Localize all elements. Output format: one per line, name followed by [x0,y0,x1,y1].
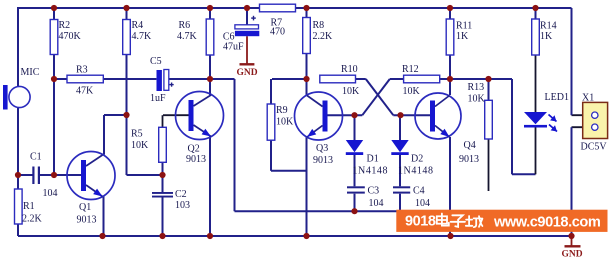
svg-text:47K: 47K [76,86,94,97]
svg-text:1N4148: 1N4148 [353,166,389,177]
svg-text:470K: 470K [59,31,82,42]
svg-text:Q4: Q4 [464,140,476,151]
svg-text:10K: 10K [276,117,294,128]
svg-text:104: 104 [43,188,58,199]
svg-text:Q2: Q2 [188,144,200,155]
svg-text:10K: 10K [468,94,486,105]
svg-text:104: 104 [415,198,430,209]
svg-text:D2: D2 [411,154,423,165]
svg-text:R11: R11 [456,21,472,32]
svg-text:Q3: Q3 [316,143,328,154]
svg-text:C5: C5 [150,56,162,67]
svg-text:R13: R13 [468,82,485,93]
svg-text:C3: C3 [368,186,380,197]
svg-text:10K: 10K [403,86,421,97]
svg-text:9013: 9013 [459,154,479,165]
svg-text:1N4148: 1N4148 [398,166,434,177]
svg-text:9013: 9013 [186,154,206,165]
svg-text:www.c9018.com: www.c9018.com [493,215,601,231]
svg-text:4.7K: 4.7K [177,31,198,42]
svg-text:R5: R5 [131,129,143,140]
svg-text:R14: R14 [540,21,557,32]
svg-text:C2: C2 [175,189,187,200]
svg-text:9018: 9018 [405,214,436,230]
svg-text:R3: R3 [76,65,88,76]
svg-text:4.7K: 4.7K [132,31,153,42]
svg-text:1K: 1K [456,31,469,42]
svg-text:R4: R4 [132,20,144,31]
svg-text:GND: GND [236,68,257,78]
svg-text:R9: R9 [276,105,288,116]
svg-text:R6: R6 [179,20,191,31]
svg-text:470: 470 [270,27,285,38]
svg-text:X1: X1 [582,93,594,104]
svg-text:103: 103 [175,200,190,211]
svg-text:R12: R12 [402,64,419,75]
svg-text:GND: GND [561,250,582,260]
svg-text:1K: 1K [540,31,553,42]
svg-text:R8: R8 [313,20,325,31]
svg-text:Q1: Q1 [79,202,91,213]
svg-text:LED1: LED1 [545,92,569,103]
svg-text:C1: C1 [30,152,42,163]
svg-text:C4: C4 [413,186,425,197]
svg-text:MIC: MIC [21,67,40,78]
svg-text:2.2K: 2.2K [313,31,334,42]
svg-text:2.2K: 2.2K [22,214,43,225]
svg-text:D1: D1 [367,154,379,165]
svg-text:10K: 10K [342,86,360,97]
svg-text:R1: R1 [23,201,35,212]
svg-text:1uF: 1uF [150,93,166,104]
svg-text:DC5V: DC5V [581,142,608,153]
svg-text:10K: 10K [131,140,149,151]
svg-text:R10: R10 [341,64,358,75]
svg-text:9013: 9013 [313,155,333,166]
svg-text:9013: 9013 [77,215,97,226]
svg-text:R2: R2 [59,20,71,31]
svg-text:104: 104 [369,198,384,209]
svg-text:47uF: 47uF [223,42,244,53]
